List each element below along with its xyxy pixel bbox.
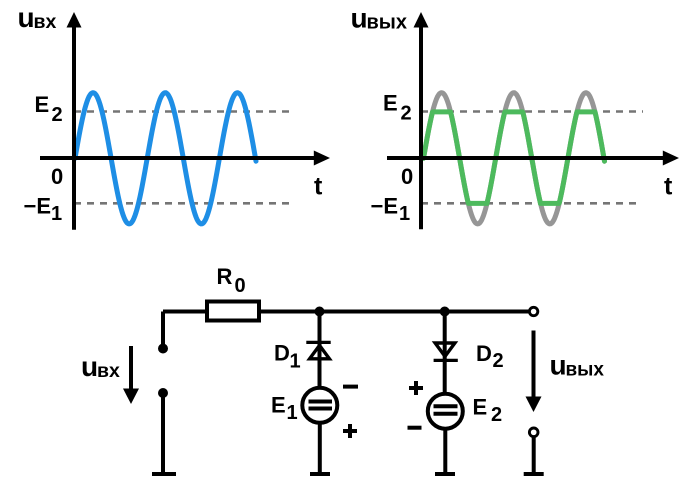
svg-text:−E: −E bbox=[371, 194, 399, 219]
svg-text:D: D bbox=[274, 341, 290, 366]
svg-text:2: 2 bbox=[52, 104, 63, 126]
svg-text:u: u bbox=[550, 350, 567, 381]
svg-text:u: u bbox=[351, 3, 368, 34]
svg-text:u: u bbox=[81, 351, 98, 382]
svg-text:t: t bbox=[314, 173, 323, 201]
svg-text:R: R bbox=[217, 264, 233, 289]
svg-text:1: 1 bbox=[290, 351, 301, 373]
svg-text:1: 1 bbox=[287, 402, 298, 424]
svg-text:0: 0 bbox=[51, 164, 63, 189]
svg-text:вх: вх bbox=[97, 360, 120, 382]
svg-text:вых: вых bbox=[367, 12, 408, 34]
svg-text:0: 0 bbox=[235, 275, 246, 297]
svg-text:E: E bbox=[383, 91, 398, 116]
svg-text:0: 0 bbox=[401, 164, 413, 189]
svg-text:D: D bbox=[476, 341, 492, 366]
svg-text:−E: −E bbox=[24, 194, 52, 219]
svg-text:1: 1 bbox=[399, 203, 410, 225]
svg-text:вых: вых bbox=[566, 360, 605, 381]
svg-text:t: t bbox=[664, 173, 673, 201]
svg-text:1: 1 bbox=[51, 203, 62, 225]
svg-text:u: u bbox=[18, 2, 35, 33]
svg-text:E: E bbox=[473, 395, 488, 420]
svg-text:E: E bbox=[271, 393, 286, 418]
svg-text:2: 2 bbox=[401, 103, 412, 125]
svg-text:вх: вх bbox=[34, 11, 57, 33]
svg-text:2: 2 bbox=[493, 350, 504, 372]
svg-text:2: 2 bbox=[491, 404, 502, 426]
svg-text:E: E bbox=[35, 92, 50, 117]
